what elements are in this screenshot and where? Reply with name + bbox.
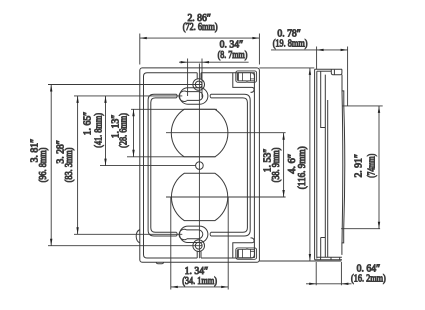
bottom keyhole slot cutout	[179, 229, 203, 239]
dim 2.86 extension lines	[140, 34, 260, 65]
side view top inner line	[317, 70, 332, 72]
svg-text:(8. 7mm): (8. 7mm)	[218, 50, 248, 61]
side view back curve inner	[341, 91, 344, 243]
dim 4.6 line	[309, 68, 311, 261]
bottom edge tab	[156, 262, 163, 264]
side view front face	[315, 69, 317, 259]
ext line plate top to side (4.6)	[259, 67, 314, 69]
duplex receptacle opening (top)	[171, 109, 228, 157]
ext line 2.91 bottom	[341, 228, 380, 230]
dim 3.81 line	[50, 85, 52, 246]
svg-text:(116. 9mm): (116. 9mm)	[297, 146, 308, 189]
svg-text:(16. 2mm): (16. 2mm)	[351, 274, 386, 285]
dim 0.34 line with outside arrows and tail	[179, 61, 249, 63]
svg-text:(28. 6mm): (28. 6mm)	[118, 113, 129, 148]
svg-text:(72. 6mm): (72. 6mm)	[183, 22, 218, 33]
side view top edge	[315, 68, 342, 70]
svg-text:(83. 3mm): (83. 3mm)	[64, 148, 75, 183]
svg-text:(41. 8mm): (41. 8mm)	[94, 113, 105, 148]
ext line top lobe center (3.81)	[48, 84, 202, 86]
dim 0.78 line	[271, 49, 348, 51]
dim 0.64 extension lines	[316, 262, 341, 285]
dim 1.13 line	[132, 109, 134, 157]
side view bottom edge	[315, 259, 342, 261]
top keyhole slot cutout	[179, 91, 203, 101]
dim 2.91 line	[378, 106, 380, 229]
bottom-right mounting ear platform	[233, 238, 254, 258]
svg-text:0. 34″: 0. 34″	[220, 39, 244, 50]
plate raised face outer rounded rect	[148, 94, 250, 236]
svg-text:(19. 8mm): (19. 8mm)	[273, 38, 308, 49]
dim 0.78 extension lines	[317, 47, 348, 106]
svg-text:(74mm): (74mm)	[366, 154, 377, 178]
top-right clip box	[236, 71, 257, 82]
ext line 2.91 top	[342, 105, 382, 107]
ext line top opening lower flat (1.13)	[127, 156, 216, 158]
dim 1.65 line	[104, 96, 106, 166]
side view top cap box	[331, 69, 342, 75]
ext line center screw (1.65)	[100, 165, 196, 167]
wall plate second outline	[144, 73, 255, 258]
dim 2.86 line	[140, 37, 260, 39]
dim 0.34 extension lines	[188, 59, 202, 98]
side view body lines	[321, 71, 328, 257]
top keyhole screw hole	[195, 81, 202, 88]
ext line bottom lobe center (3.81)	[48, 245, 202, 247]
left side ear tab	[136, 230, 140, 243]
ext line top opening center (1.53)	[166, 132, 286, 134]
top keyhole screw boss lobe	[193, 79, 205, 91]
dim 1.34 line	[171, 286, 228, 288]
ext line top keyhole slot center (3.28)	[74, 95, 182, 97]
center line vertical	[198, 64, 200, 259]
dim 3.28 line	[76, 96, 78, 234]
face outline relief brackets at keyhole bosses	[176, 94, 211, 236]
svg-text:1. 65″: 1. 65″	[82, 112, 93, 136]
svg-text:(34. 1mm): (34. 1mm)	[182, 276, 217, 287]
center screw hole	[196, 162, 204, 170]
side view bottom cap box	[317, 257, 342, 260]
svg-text:(96. 8mm): (96. 8mm)	[38, 148, 49, 183]
ext line plate bottom to side (4.6)	[259, 260, 341, 262]
ext line top opening upper flat (1.13)	[131, 108, 217, 110]
bottom-right clip box	[236, 248, 257, 259]
bottom keyhole screw hole	[195, 242, 202, 249]
plate raised face inner rounded rect	[151, 98, 248, 232]
top-right mounting ear platform	[233, 73, 254, 93]
dim 1.53 line	[282, 133, 284, 197]
wall plate outer rectangle	[140, 68, 260, 262]
dim 1.34 extension lines	[171, 198, 228, 290]
ext line bottom keyhole slot center (3.28)	[74, 233, 182, 235]
dim 0.64 line with outside arrows	[306, 283, 352, 285]
ext line bottom opening center (1.53)	[166, 196, 286, 198]
bottom keyhole screw boss lobe	[193, 240, 205, 252]
svg-text:2. 91″: 2. 91″	[354, 154, 365, 178]
svg-text:(38. 9mm): (38. 9mm)	[271, 148, 282, 183]
top keyhole boss	[180, 73, 208, 105]
duplex receptacle opening (bottom)	[171, 173, 227, 220]
bottom keyhole boss	[180, 226, 208, 258]
side view right profile with steps	[342, 75, 345, 255]
